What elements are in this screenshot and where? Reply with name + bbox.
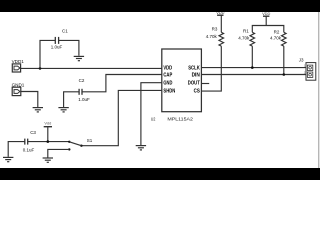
wire R1 to SCLK net [251,46,253,68]
ground (S1) [43,158,53,162]
wire C3 left lead to ground [8,142,24,157]
svg-text:VDD1: VDD1 [12,59,25,64]
wire U2.GND to ground [141,83,162,145]
svg-text:C2: C2 [79,78,85,83]
svg-text:Vdd: Vdd [44,121,51,126]
svg-text:SCLK: SCLK [188,66,200,72]
wire SCLK to J3 pin1 [201,67,306,69]
wire C3 right lead to switch throw [28,141,69,143]
svg-text:4.70k: 4.70k [206,34,218,39]
wire C1 left lead [40,40,55,68]
wire R2 to DIN net [283,46,285,74]
capacitor C2 [78,78,90,102]
port GND1 [12,82,25,95]
wire C2 left lead to ground [64,92,79,107]
wire C2 right lead up to U2.CAP [82,75,162,92]
svg-text:1.0uF: 1.0uF [51,45,63,50]
resistor R3 [206,27,224,47]
node junction R1/SCLK [251,66,254,69]
svg-text:DOUT: DOUT [188,81,200,87]
letterbox bar bottom [0,168,320,180]
wire VDD rail to R1 R2 [252,26,283,33]
ground (GND1) [33,108,43,112]
svg-text:R1: R1 [243,29,249,34]
wire VDD1 to U2.VDD [21,67,162,69]
svg-text:4.70k: 4.70k [270,35,282,40]
power VDD (R3) [216,10,224,32]
svg-text:C1: C1 [62,28,68,33]
svg-text:C3: C3 [30,130,36,135]
power VDD (R1 R2) [262,11,270,26]
letterbox bar top [0,0,320,12]
svg-text:1.0uF: 1.0uF [78,97,90,102]
node junction R2/DIN [283,73,286,76]
svg-text:4.70k: 4.70k [238,35,250,40]
svg-text:VDD: VDD [163,66,172,72]
connector J3 [299,58,316,81]
capacitor C1 [51,28,68,49]
svg-text:U2: U2 [151,116,156,122]
wire switch bottom throw to ground [48,149,70,157]
wire GND1 to ground [21,92,38,108]
svg-text:DIN: DIN [192,73,201,79]
svg-text:S1: S1 [87,138,93,143]
svg-text:J3: J3 [299,58,304,63]
ground (U2.GND) [136,146,146,150]
ground (C1) [74,56,84,60]
wire U2.SHDN to switch pole [82,90,162,145]
svg-text:R3: R3 [212,27,218,32]
node junction C1/VDD [39,67,42,70]
svg-text:R2: R2 [274,29,280,34]
svg-text:0.1uF: 0.1uF [23,148,35,153]
svg-text:GND1: GND1 [12,82,25,87]
frame edge right [318,12,320,168]
wire DIN to J3 pin2 [201,74,306,76]
node junction Vdd/C3 [47,140,50,143]
ground (C2) [58,108,68,112]
svg-text:SHDN: SHDN [163,88,175,94]
svg-text:CAP: CAP [163,73,172,79]
ground (C3) [3,157,13,161]
switch S1 [68,138,93,151]
resistor R1 [238,29,254,46]
port VDD1 [12,59,25,72]
op-amp U2 body [151,49,202,122]
power Vdd (C3/S1) [44,121,52,142]
svg-text:MPL115A2: MPL115A2 [167,116,193,122]
wire CS to R3 [201,46,221,91]
svg-text:CS: CS [194,88,201,94]
wire C1 right lead [59,40,79,55]
svg-text:GND: GND [163,81,172,87]
capacitor C3 [23,130,37,153]
resistor R2 [270,29,286,46]
wire DOUT stub [201,83,209,85]
